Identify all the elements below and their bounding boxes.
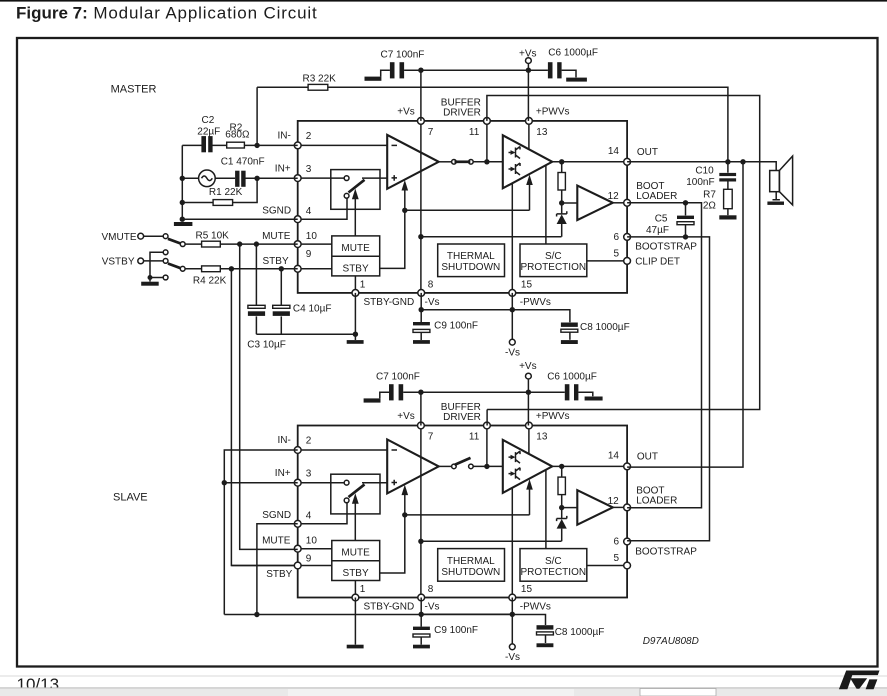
capacitor C1 xyxy=(235,171,239,187)
footer separator line xyxy=(0,676,887,677)
wire -Vs bus to C8 xyxy=(512,310,570,323)
svg-text:VMUTE: VMUTE xyxy=(102,232,137,243)
svg-text:C7 100nF: C7 100nF xyxy=(376,372,420,383)
svg-text:22µF: 22µF xyxy=(197,126,220,137)
wire stby idle contacts to ground xyxy=(150,252,163,281)
wire top +Vs rail xyxy=(404,69,548,71)
wire C3 C4 to pin1 ground xyxy=(256,333,355,335)
svg-text:C10: C10 xyxy=(695,166,714,177)
wire pin7 riser xyxy=(420,70,422,121)
wire C2 row xyxy=(182,144,297,146)
capacitor C6 slave xyxy=(565,384,570,400)
capacitor C3 xyxy=(255,244,257,334)
wire out link xyxy=(627,162,743,467)
wire R3 feedback riser xyxy=(257,87,728,162)
wire slave -Vs bus to C8 xyxy=(512,615,545,626)
svg-text:R4 22K: R4 22K xyxy=(193,275,227,286)
wire slave pin11 riser xyxy=(486,410,488,426)
node stby ground xyxy=(148,275,153,280)
resistor R5 xyxy=(202,241,221,247)
svg-text:R7: R7 xyxy=(703,190,716,201)
ground input rail xyxy=(174,222,193,226)
signal source xyxy=(199,170,216,187)
contact VSTBY out xyxy=(180,266,185,271)
contact VSTBY bottom xyxy=(163,275,168,280)
contact VSTBY top xyxy=(163,250,168,255)
terminal VMUTE xyxy=(138,233,144,239)
svg-text:VSTBY: VSTBY xyxy=(102,257,135,268)
ground R7 xyxy=(719,215,736,219)
node R1 junction xyxy=(180,200,185,205)
svg-text:R5 10K: R5 10K xyxy=(196,231,230,242)
contact VSTBY mid xyxy=(163,259,168,264)
resistor R3 xyxy=(308,84,328,90)
node pin7 riser xyxy=(418,68,423,73)
lever VSTBY xyxy=(168,264,181,269)
slave pin 9 wire xyxy=(231,565,331,567)
svg-text:CLIP DET: CLIP DET xyxy=(635,256,680,267)
MASTER IC (shared internals) xyxy=(262,98,697,359)
footer grey bar xyxy=(0,688,887,696)
node R3 tap on IN- xyxy=(254,143,259,148)
resistor R1 xyxy=(213,200,233,206)
node +Vs junction xyxy=(526,68,531,73)
wire pin12 link xyxy=(627,203,701,508)
top page rule xyxy=(0,0,887,2)
wire SGND to rail xyxy=(182,218,297,220)
wire VMUTE xyxy=(144,235,163,237)
node slave pin7 riser xyxy=(418,390,423,395)
slave top rail C7 ground xyxy=(364,398,381,402)
wire slave pin13 riser xyxy=(527,379,529,426)
master signal switch closed lever xyxy=(455,160,471,163)
svg-text:D97AU808D: D97AU808D xyxy=(643,636,699,647)
node feedback junction xyxy=(725,159,730,164)
resistor R4 xyxy=(202,266,221,272)
ground VSTBY xyxy=(141,282,159,286)
wire OUT line xyxy=(627,162,776,171)
ground C6 slave xyxy=(578,392,592,396)
svg-text:C6 1000µF: C6 1000µF xyxy=(548,47,598,58)
svg-text:C1 470nF: C1 470nF xyxy=(221,157,265,168)
node SGND rail junction xyxy=(180,217,185,222)
node slave input tie xyxy=(222,480,227,485)
wire R7 to ground xyxy=(727,209,729,216)
master pin 9 xyxy=(294,265,301,272)
wire VSTBY xyxy=(144,260,163,262)
svg-text:C3 10µF: C3 10µF xyxy=(247,339,286,350)
wire slave SGND drop xyxy=(257,524,298,615)
svg-text:C8 1000µF: C8 1000µF xyxy=(555,627,605,638)
ground C8 slave xyxy=(537,643,554,647)
capacitor C5 xyxy=(685,203,687,237)
node C3 tap xyxy=(254,241,259,246)
wire R5 to pin10 xyxy=(220,243,297,245)
slave signal switch open lever xyxy=(455,458,471,465)
resistor R2 xyxy=(227,142,245,148)
svg-text:C4 10µF: C4 10µF xyxy=(293,304,332,315)
capacitor C6 xyxy=(548,62,553,78)
wire pin13 riser xyxy=(527,64,529,121)
node R1 riser on IN+ xyxy=(254,176,259,181)
terminal VSTBY xyxy=(138,258,144,264)
node slave +Vs junction xyxy=(526,390,531,395)
wire stby link master to slave xyxy=(231,269,297,566)
wire slave +Vs rail xyxy=(403,391,565,393)
wire to R5 xyxy=(185,243,202,245)
svg-text:MASTER: MASTER xyxy=(111,83,157,95)
svg-text:2Ω: 2Ω xyxy=(703,200,717,211)
svg-text:C2: C2 xyxy=(202,115,215,126)
wire slave pin7 riser xyxy=(420,392,422,425)
wire source row xyxy=(182,177,297,179)
wire buffer driver link xyxy=(487,96,760,410)
capacitor C7 slave xyxy=(389,384,394,400)
svg-text:C7 100nF: C7 100nF xyxy=(381,50,425,61)
node pin1 ground junction xyxy=(353,332,358,337)
svg-text:+Vs: +Vs xyxy=(519,48,537,59)
wire R4 to pin9 xyxy=(220,268,297,270)
svg-text:47µF: 47µF xyxy=(646,225,669,236)
terminal +Vs slave xyxy=(526,373,532,379)
capacitor C2 xyxy=(201,136,206,152)
ground C6 xyxy=(562,70,576,77)
wire slave IN+ xyxy=(224,482,297,484)
input ground rail xyxy=(181,145,183,220)
lever VMUTE xyxy=(168,239,181,244)
capacitor C8 xyxy=(561,323,578,327)
svg-text:STBY: STBY xyxy=(266,569,292,580)
ST logo xyxy=(839,671,880,690)
svg-text:SLAVE: SLAVE xyxy=(113,491,148,503)
SLAVE IC (shared internals) xyxy=(262,402,697,663)
ground C8 xyxy=(561,340,578,344)
svg-text:100nF: 100nF xyxy=(686,177,714,188)
svg-text:R3 22K: R3 22K xyxy=(303,73,337,84)
contact VMUTE xyxy=(163,234,168,239)
node C5 bottom xyxy=(683,234,688,239)
svg-text:C5: C5 xyxy=(655,213,668,224)
slave pin 9 xyxy=(294,562,301,569)
capacitor C8 slave xyxy=(537,625,554,629)
svg-text:Figure 7: Modular Application: Figure 7: Modular Application Circuit xyxy=(16,4,318,23)
master top rail C7 ground xyxy=(365,77,382,81)
wire to R4 xyxy=(185,268,202,270)
svg-text:C8 1000µF: C8 1000µF xyxy=(580,322,630,333)
wire slave IN- xyxy=(224,450,297,615)
ground speaker xyxy=(767,202,784,205)
node source junction xyxy=(180,176,185,181)
svg-text:+Vs: +Vs xyxy=(519,361,537,372)
node C5 top xyxy=(683,200,688,205)
wire mute link master to slave xyxy=(240,244,298,549)
wire pin6 link xyxy=(627,237,709,541)
node C4 tap xyxy=(279,266,284,271)
capacitor C7 xyxy=(390,62,395,78)
wire slave ground bus xyxy=(224,614,512,616)
master pin 9 wire xyxy=(298,268,332,270)
wire speaker to ground xyxy=(773,192,780,200)
node slave sgnd junction xyxy=(254,612,259,617)
terminal +Vs xyxy=(526,58,532,64)
speaker xyxy=(770,171,780,192)
node stby link tap xyxy=(229,266,234,271)
node slave out junction xyxy=(740,159,745,164)
svg-text:STBY: STBY xyxy=(263,256,289,267)
svg-text:680Ω: 680Ω xyxy=(225,129,250,140)
resistor R7 xyxy=(724,189,733,208)
contact VMUTE out xyxy=(180,242,185,247)
wire R1 row xyxy=(182,178,257,202)
capacitor C10 xyxy=(727,162,729,173)
svg-text:C6 1000µF: C6 1000µF xyxy=(547,372,597,383)
svg-text:R1 22K: R1 22K xyxy=(209,187,243,198)
node mute link tap xyxy=(237,241,242,246)
capacitor C4 xyxy=(280,269,282,334)
